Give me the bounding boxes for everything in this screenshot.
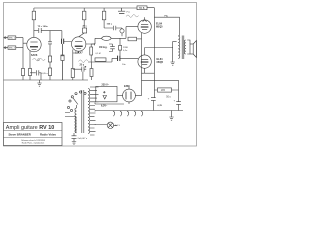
svg-text:MIC 2: MIC 2 xyxy=(9,48,16,50)
handwritten annotations xyxy=(33,15,139,63)
wire V2 cathode drops xyxy=(73,50,79,69)
output transformer T2 primary xyxy=(178,36,180,58)
svg-text:2x0,047 u: 2x0,047 u xyxy=(78,138,88,140)
transformer T1 core xyxy=(82,90,84,133)
svg-text:0,05 u: 0,05 u xyxy=(42,73,49,75)
transformer T2 core xyxy=(182,36,184,60)
resistor R8 xyxy=(90,47,93,55)
ground rail xyxy=(4,79,89,81)
title block frame xyxy=(4,123,63,146)
wire V1 cathode drops xyxy=(23,48,30,69)
annotation squiggle coupole xyxy=(126,15,139,18)
svg-text:6,3V~: 6,3V~ xyxy=(101,104,108,107)
svg-text:50 u: 50 u xyxy=(166,96,171,98)
selector SW1 wiper xyxy=(73,98,78,105)
electrolytic C4 xyxy=(48,56,51,62)
capacitor C11 xyxy=(109,44,115,52)
input jack J2 xyxy=(4,47,9,49)
input jack J1 xyxy=(4,37,9,39)
border frame xyxy=(4,3,197,147)
svg-text:1M log.: 1M log. xyxy=(99,46,108,49)
svg-text:6,3 V: 6,3 V xyxy=(115,125,121,127)
wire secondary to speaker xyxy=(187,40,190,54)
potentiometer VR1 xyxy=(102,36,111,40)
terminal dot J2 xyxy=(5,47,7,49)
wire jacks to V1 grid xyxy=(16,38,27,48)
svg-text:100 u: 100 u xyxy=(107,24,113,26)
wire V3 cathode long xyxy=(141,33,143,96)
wire to V3 grid xyxy=(120,27,138,39)
lamp cross xyxy=(95,123,117,127)
terminal dot J1 xyxy=(5,37,7,39)
svg-text:6,3V: 6,3V xyxy=(158,105,163,107)
title divider 2 xyxy=(4,137,63,139)
tube V4 internals xyxy=(141,59,148,64)
transformer T1 primary xyxy=(75,108,77,133)
small labels xyxy=(9,7,176,140)
ground symbol xyxy=(37,80,41,86)
wire plate line top right xyxy=(154,17,179,35)
tube V3 internals xyxy=(141,17,148,30)
capacitor C9 bypass xyxy=(30,70,41,80)
heater hooks xyxy=(113,111,143,116)
tube V2 xyxy=(72,37,86,51)
wire TR B to screen line xyxy=(147,8,154,98)
svg-text:6AV6: 6AV6 xyxy=(31,53,38,57)
wire heater rail B xyxy=(95,110,183,112)
svg-text:TF + 100n: TF + 100n xyxy=(38,26,49,28)
resistor R3 plate V2 xyxy=(83,11,86,20)
lamp 6.3V xyxy=(107,122,113,128)
svg-text:EZ80: EZ80 xyxy=(124,85,130,88)
capacitor C6 xyxy=(104,26,122,30)
svg-text:Schema releve le 12/3/1958: Schema releve le 12/3/1958 xyxy=(21,139,45,142)
resistor R9 xyxy=(119,46,122,51)
tube V4 EL84 xyxy=(138,55,151,68)
selector SW1 contacts xyxy=(69,100,71,102)
capacitor C3 dark coupling xyxy=(62,39,64,44)
tube V1 plate bar xyxy=(30,41,37,43)
capacitor C13 xyxy=(151,98,156,111)
speaker LS1 xyxy=(190,44,193,54)
resistor R6 xyxy=(28,69,31,76)
svg-text:Ampli guitare RV 10: Ampli guitare RV 10 xyxy=(6,125,54,131)
wire C12 to V4 grid xyxy=(112,58,138,62)
svg-text:Radio Video: Radio Video xyxy=(40,133,56,137)
wire B+ top rail xyxy=(34,7,137,9)
wire heater rail A xyxy=(95,103,124,105)
annotation squiggle stage2 xyxy=(79,60,89,63)
tube V1 grid bar xyxy=(30,46,38,48)
capacitor C7 round xyxy=(120,29,124,33)
capacitor C15 mains xyxy=(72,133,77,141)
tube V2 cathode xyxy=(76,48,81,50)
ground heater xyxy=(169,111,173,121)
transformer T1 secondary xyxy=(88,89,90,134)
wire V5 leads xyxy=(129,87,142,105)
svg-text:220K: 220K xyxy=(123,47,129,49)
tube V4 grid bar xyxy=(141,61,149,63)
svg-text:6BQ5: 6BQ5 xyxy=(156,26,163,29)
output transformer T2 secondary xyxy=(184,40,185,54)
selector SW1 lower contacts xyxy=(67,106,69,108)
wire C3 to V2 grid xyxy=(62,31,72,42)
svg-text:Steve BRANBER: Steve BRANBER xyxy=(9,133,31,137)
tube V1 xyxy=(27,37,41,51)
svg-text:1K5: 1K5 xyxy=(161,90,166,92)
electrolytic C5 xyxy=(83,28,87,33)
wire PSU to V5 xyxy=(117,95,123,97)
wire mains terminals xyxy=(65,105,77,133)
wire lower path xyxy=(88,61,112,63)
tube V3 grid bar xyxy=(141,26,149,28)
svg-text:0,5 M: 0,5 M xyxy=(96,53,101,55)
capacitor C10 bypass xyxy=(73,66,86,80)
resistor R11 filter xyxy=(158,88,172,92)
title block xyxy=(4,123,63,146)
PSU cap plus xyxy=(103,91,106,93)
tone box xyxy=(95,58,106,61)
resistor R2 cathode2 xyxy=(48,68,51,76)
capacitor C2 tone xyxy=(48,31,52,56)
capacitor C14 xyxy=(176,102,181,111)
tube V2 plate bar xyxy=(75,40,82,42)
PSU box xyxy=(96,86,117,101)
resistor R5 xyxy=(21,69,24,76)
wire R1 leads xyxy=(33,8,35,37)
PSU cap triangle xyxy=(103,96,107,100)
rectifier V5 anodes xyxy=(126,92,131,100)
svg-text:230 V~: 230 V~ xyxy=(102,84,110,87)
wire V2 plate out xyxy=(86,38,96,44)
svg-text:Radio Plans - reproduction: Radio Plans - reproduction xyxy=(22,142,44,145)
annotation squiggle stage1 xyxy=(33,58,46,61)
tube V2 grid bar xyxy=(75,45,83,47)
wire V4 plate xyxy=(145,48,173,74)
wire B+ branch xyxy=(142,80,179,101)
capacitor C1 coupling xyxy=(39,28,62,33)
tube V3 EL84 xyxy=(138,20,151,33)
resistor R10 grid xyxy=(128,37,137,41)
svg-text:12AX7: 12AX7 xyxy=(75,50,83,54)
svg-text:47 u: 47 u xyxy=(83,24,88,27)
resistor R7b xyxy=(90,69,93,77)
capacitor C8 screen xyxy=(118,8,125,14)
electrolytic C16 xyxy=(61,55,64,61)
wire taps to heater rails xyxy=(94,103,96,126)
svg-text:6BQ5: 6BQ5 xyxy=(157,61,164,64)
transformer T1 taps xyxy=(90,87,99,135)
resistor R1 xyxy=(32,11,35,20)
ground T2 xyxy=(171,62,175,65)
wire cathode rail xyxy=(142,72,155,74)
rectifier V5 xyxy=(123,89,136,102)
svg-text:25 u: 25 u xyxy=(80,64,85,66)
resistor R4 xyxy=(102,11,105,20)
capacitor C12 dark xyxy=(118,56,120,61)
title divider 1 xyxy=(4,130,63,132)
wire T2 primary top xyxy=(178,35,179,38)
resistor R7 xyxy=(71,69,74,78)
fuse box TR B xyxy=(137,6,147,10)
junction tick xyxy=(94,43,96,45)
wire coupling branch V1 xyxy=(34,30,38,32)
ground mains xyxy=(72,141,76,145)
wire UL tap xyxy=(173,41,177,62)
svg-text:TR B: TR B xyxy=(139,7,145,10)
tube V1 cathode xyxy=(32,48,37,50)
svg-text:MIC 1: MIC 1 xyxy=(9,38,16,40)
